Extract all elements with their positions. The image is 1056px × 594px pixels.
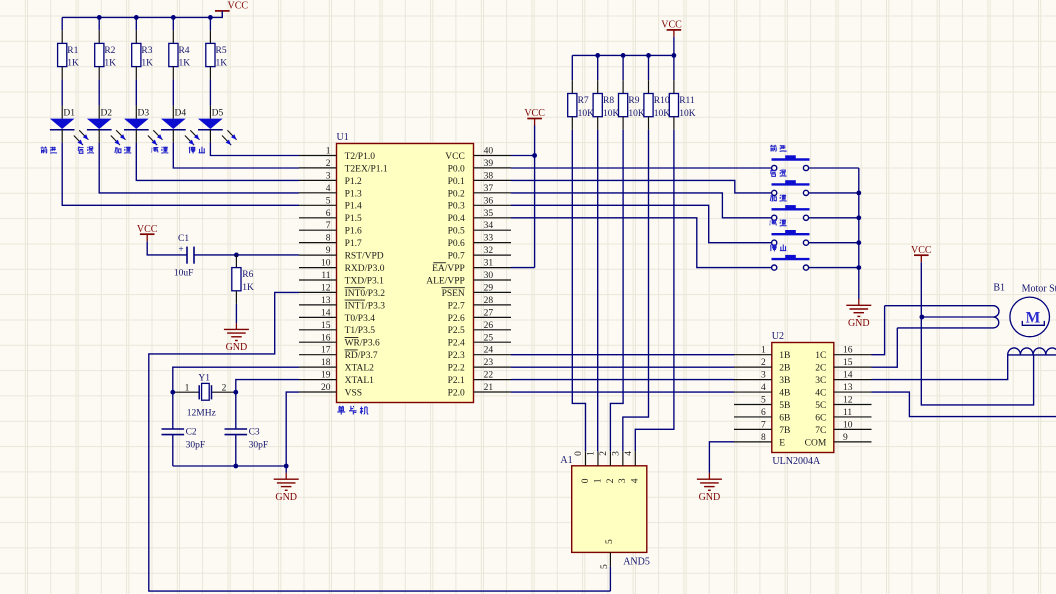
A1 pin 5 output xyxy=(609,552,611,566)
U1 pin 34 P0.5 xyxy=(474,229,512,231)
svg-text:R6: R6 xyxy=(242,270,253,280)
U1 pin 31 EA/VPP xyxy=(474,267,512,269)
svg-text:0: 0 xyxy=(574,451,584,456)
svg-text:WR/P3.6: WR/P3.6 xyxy=(345,339,380,349)
U1 pin 37 P0.2 xyxy=(474,192,512,194)
U1 pin 11 TXD/P3.1 xyxy=(299,279,337,281)
U1 pin 23 P2.2 xyxy=(474,366,512,368)
svg-text:24: 24 xyxy=(484,346,494,356)
A1 pin 4 xyxy=(634,451,636,466)
svg-text:Motor Step: Motor Step xyxy=(1022,284,1056,295)
svg-text:RXD/P3.0: RXD/P3.0 xyxy=(345,264,385,274)
wire net P0.2 xyxy=(511,193,772,218)
svg-text:ULN2004A: ULN2004A xyxy=(772,456,821,467)
LED D5 xyxy=(209,106,211,119)
U1 pin 33 P0.6 xyxy=(474,242,512,244)
LED D2 xyxy=(98,106,100,119)
wire net P2.2 to 2B xyxy=(511,366,734,368)
U1 pin 25 P2.4 xyxy=(474,341,512,343)
node VCC/P40 junction xyxy=(532,153,537,158)
svg-text:VCC: VCC xyxy=(445,152,465,162)
wire D1 to U1 xyxy=(61,130,63,143)
wire net P2.3 to 1B xyxy=(511,354,734,356)
U2 pin 13 4C xyxy=(834,391,872,393)
svg-text:P2.1: P2.1 xyxy=(448,376,465,386)
svg-text:7: 7 xyxy=(761,420,766,430)
U1 pin 18 XTAL2 xyxy=(299,366,337,368)
svg-text:3: 3 xyxy=(761,371,766,381)
motor B1 xyxy=(1010,297,1050,337)
U1 pin 39 P0.0 xyxy=(474,167,512,169)
resistor R6 1K xyxy=(235,255,237,268)
wire C1 to RST xyxy=(194,254,299,256)
U1 pin 2 T2EX/P1.1 xyxy=(299,167,337,169)
wire R5 to D5 xyxy=(209,80,211,106)
svg-text:P1.6: P1.6 xyxy=(345,227,362,237)
U2 pin 12 5C xyxy=(834,404,872,406)
svg-text:35: 35 xyxy=(484,209,494,219)
svg-text:T2EX/P1.1: T2EX/P1.1 xyxy=(345,164,388,174)
U1 pin 5 P1.4 xyxy=(299,204,337,206)
wire bus to R2 xyxy=(98,17,100,30)
U2 pin 1 1B xyxy=(734,354,772,356)
svg-text:GND: GND xyxy=(226,342,248,353)
wire bus to R1 xyxy=(61,17,63,30)
power symbol VCC (top-left rail) xyxy=(215,10,230,12)
svg-text:4: 4 xyxy=(326,184,331,194)
svg-text:3: 3 xyxy=(618,478,628,483)
wire button to GND rail xyxy=(809,167,859,169)
svg-text:10K: 10K xyxy=(654,109,671,119)
node center tap A xyxy=(920,315,925,320)
svg-text:20: 20 xyxy=(321,383,331,393)
U1 pin 35 P0.4 xyxy=(474,217,512,219)
svg-text:6B: 6B xyxy=(779,413,790,423)
svg-text:36: 36 xyxy=(484,196,494,206)
resistor R3 1K xyxy=(135,30,137,43)
label 停止 xyxy=(770,244,777,251)
svg-text:1K: 1K xyxy=(67,59,79,69)
resistor R8 10K xyxy=(597,55,599,80)
svg-text:A1: A1 xyxy=(560,455,572,466)
wire D4 to U1 xyxy=(172,130,174,143)
U1 pin 27 P2.6 xyxy=(474,316,512,318)
label 后退 xyxy=(771,170,776,177)
svg-text:2: 2 xyxy=(599,451,609,456)
wire button to GND rail xyxy=(809,217,859,219)
svg-text:D2: D2 xyxy=(100,108,112,118)
svg-text:10: 10 xyxy=(321,259,331,269)
wire R9 to AND5 input xyxy=(610,130,623,452)
U1 pin 6 P1.5 xyxy=(299,217,337,219)
svg-text:PSEN: PSEN xyxy=(442,289,465,299)
svg-text:M: M xyxy=(1026,309,1041,326)
crystal Y1 12MHz xyxy=(173,391,199,393)
svg-text:RD/P3.7: RD/P3.7 xyxy=(345,351,378,361)
svg-text:11: 11 xyxy=(843,408,852,418)
svg-text:13: 13 xyxy=(321,296,331,306)
svg-text:COM: COM xyxy=(805,438,827,448)
svg-text:R2: R2 xyxy=(104,46,115,56)
wire net P0.3 xyxy=(511,205,772,242)
svg-text:14: 14 xyxy=(843,371,853,381)
U1 pin 21 P2.0 xyxy=(474,391,512,393)
U1 pin 17 RD/P3.7 xyxy=(299,354,337,356)
svg-text:R5: R5 xyxy=(216,46,227,56)
switch S4 减速 xyxy=(772,233,810,235)
svg-text:R1: R1 xyxy=(67,46,78,56)
wire bus to R3 xyxy=(135,17,137,30)
wire D2 to U1 xyxy=(98,130,100,143)
svg-text:1B: 1B xyxy=(779,351,790,361)
svg-text:5B: 5B xyxy=(779,401,790,411)
svg-text:P2.2: P2.2 xyxy=(448,364,465,374)
label 后退 xyxy=(78,147,83,154)
svg-text:R10: R10 xyxy=(654,96,670,106)
U1 pin 29 PSEN xyxy=(474,291,512,293)
svg-text:P0.0: P0.0 xyxy=(448,164,465,174)
svg-text:VCC: VCC xyxy=(911,245,932,256)
svg-text:7B: 7B xyxy=(779,426,790,436)
wire VCC to motor center taps xyxy=(921,262,1033,405)
svg-text:P1.3: P1.3 xyxy=(345,189,362,199)
svg-text:2: 2 xyxy=(222,384,227,394)
svg-text:7: 7 xyxy=(326,221,331,231)
svg-text:EA/VPP: EA/VPP xyxy=(432,264,465,274)
svg-text:R3: R3 xyxy=(141,46,152,56)
svg-text:39: 39 xyxy=(484,159,494,169)
wire button to GND rail xyxy=(809,267,859,269)
U1 pin 20 VSS xyxy=(299,391,337,393)
U2 pin 5 5B xyxy=(734,404,772,406)
label 停止 xyxy=(189,147,196,154)
svg-text:8: 8 xyxy=(761,433,766,443)
node C1/R6 junction xyxy=(234,253,239,258)
svg-text:R8: R8 xyxy=(603,96,614,106)
svg-text:P2.7: P2.7 xyxy=(448,301,465,311)
U1 pin 24 P2.3 xyxy=(474,354,512,356)
resistor R10 10K xyxy=(648,55,650,80)
svg-text:37: 37 xyxy=(484,184,494,194)
svg-text:P2.0: P2.0 xyxy=(448,388,465,398)
svg-text:8: 8 xyxy=(326,234,331,244)
wire button GND rail xyxy=(858,168,860,299)
svg-text:5: 5 xyxy=(600,564,610,569)
svg-text:P1.5: P1.5 xyxy=(345,214,362,224)
power symbol VCC (motor) xyxy=(914,254,929,256)
svg-text:XTAL2: XTAL2 xyxy=(345,364,375,374)
gate A1 AND5 xyxy=(572,466,647,553)
LED D4 xyxy=(172,106,174,119)
wire R10 to AND5 input xyxy=(623,130,649,452)
wire bus to R5 xyxy=(209,17,211,30)
svg-text:D1: D1 xyxy=(63,108,75,118)
wire R4 to D4 xyxy=(172,80,174,106)
svg-text:P2.6: P2.6 xyxy=(448,314,465,324)
svg-text:U2: U2 xyxy=(772,331,784,342)
svg-text:30pF: 30pF xyxy=(186,441,206,451)
svg-text:9: 9 xyxy=(326,246,331,256)
svg-text:ALE/VPP: ALE/VPP xyxy=(426,276,465,286)
svg-text:4B: 4B xyxy=(779,388,790,398)
label 加速 xyxy=(770,196,776,201)
U2 pin 16 1C xyxy=(834,354,872,356)
U2 pin 4 4B xyxy=(734,391,772,393)
svg-text:15: 15 xyxy=(843,358,853,368)
wire E to GND xyxy=(709,442,734,473)
svg-text:4C: 4C xyxy=(815,388,826,398)
svg-text:Y1: Y1 xyxy=(198,374,210,384)
svg-text:6: 6 xyxy=(761,408,766,418)
wire C2/C3 ground rail xyxy=(173,465,286,467)
svg-text:C1: C1 xyxy=(178,234,189,244)
svg-text:12MHz: 12MHz xyxy=(187,408,216,418)
svg-text:10K: 10K xyxy=(603,109,620,119)
svg-text:R4: R4 xyxy=(178,46,189,56)
U1 pin 14 T0/P3.4 xyxy=(299,316,337,318)
svg-text:P2.3: P2.3 xyxy=(448,351,465,361)
label 单片机 xyxy=(337,406,345,415)
U2 pin 10 7C xyxy=(834,428,872,430)
wire 1C to coil xyxy=(872,306,885,355)
svg-text:2C: 2C xyxy=(815,364,826,374)
svg-text:+: + xyxy=(179,244,184,254)
svg-text:B1: B1 xyxy=(993,283,1005,294)
capacitor C2 30pF xyxy=(172,392,174,429)
svg-text:R7: R7 xyxy=(578,96,589,106)
svg-text:22: 22 xyxy=(484,371,494,381)
svg-text:D5: D5 xyxy=(212,108,224,118)
svg-text:13: 13 xyxy=(843,383,853,393)
svg-text:T1/P3.5: T1/P3.5 xyxy=(345,326,376,336)
U2 pin 8 E xyxy=(734,441,772,443)
svg-text:32: 32 xyxy=(484,246,494,256)
LED D1 xyxy=(61,106,63,119)
U1 pin 8 P1.7 xyxy=(299,242,337,244)
wire pull-up bus xyxy=(572,37,674,56)
svg-text:1C: 1C xyxy=(815,351,826,361)
U1 pin 13 INT1/P3.3 xyxy=(299,304,337,306)
svg-text:33: 33 xyxy=(484,234,494,244)
wire R11 to AND5 input xyxy=(635,130,674,452)
power symbol VCC (pull-ups) xyxy=(667,29,682,31)
wire VCC top bus xyxy=(62,11,222,18)
U1 pin 9 RST/VPD xyxy=(299,254,337,256)
wire R6 to GND xyxy=(235,304,237,323)
svg-text:VCC: VCC xyxy=(524,108,545,119)
svg-text:10K: 10K xyxy=(578,109,595,119)
svg-text:0: 0 xyxy=(581,478,591,483)
svg-text:3: 3 xyxy=(612,451,622,456)
svg-text:VCC: VCC xyxy=(228,1,249,12)
svg-text:1: 1 xyxy=(587,451,597,456)
svg-text:D4: D4 xyxy=(175,108,187,118)
svg-text:14: 14 xyxy=(321,308,331,318)
svg-text:GND: GND xyxy=(275,492,297,503)
svg-text:16: 16 xyxy=(843,346,853,356)
svg-text:AND5: AND5 xyxy=(623,556,650,567)
U1 pin 19 XTAL1 xyxy=(299,379,337,381)
svg-text:12: 12 xyxy=(843,396,853,406)
wire net P0.1 xyxy=(511,180,772,193)
wire R1 to D1 xyxy=(61,80,63,106)
svg-text:38: 38 xyxy=(484,171,494,181)
svg-text:TXD/P3.1: TXD/P3.1 xyxy=(345,276,385,286)
svg-text:INT0/P3.2: INT0/P3.2 xyxy=(345,289,386,299)
wire button to GND rail xyxy=(809,192,859,194)
svg-text:1: 1 xyxy=(761,346,766,356)
resistor R4 1K xyxy=(172,30,174,43)
resistor R7 10K xyxy=(571,55,573,80)
label 减速 xyxy=(770,220,777,225)
wire INT0/P3.2 to AND5 output xyxy=(149,292,611,591)
wire VSS net xyxy=(286,392,299,466)
U1 pin 1 T2/P1.0 xyxy=(299,155,337,157)
U2 pin 11 6C xyxy=(834,416,872,418)
resistor R1 1K xyxy=(61,30,63,43)
svg-text:15: 15 xyxy=(321,321,331,331)
resistor R5 1K xyxy=(209,30,211,43)
power symbol VCC (U1) xyxy=(527,118,542,120)
svg-text:9: 9 xyxy=(843,433,848,443)
label 减速 xyxy=(151,147,158,152)
svg-text:T0/P3.4: T0/P3.4 xyxy=(345,314,376,324)
ground (buttons) xyxy=(858,299,860,305)
svg-text:P2.4: P2.4 xyxy=(448,339,465,349)
svg-text:23: 23 xyxy=(484,358,494,368)
wire D5 to U1 xyxy=(209,130,211,143)
svg-text:P0.1: P0.1 xyxy=(448,177,465,187)
svg-text:1: 1 xyxy=(326,147,331,157)
svg-text:1K: 1K xyxy=(216,59,228,69)
A1 pin 0 xyxy=(585,451,587,466)
wire net P2.0 to 4B xyxy=(511,391,734,393)
svg-text:1K: 1K xyxy=(178,59,190,69)
svg-text:INT1/P3.3: INT1/P3.3 xyxy=(345,301,386,311)
U1 pin 7 P1.6 xyxy=(299,229,337,231)
svg-text:27: 27 xyxy=(484,308,494,318)
svg-text:3: 3 xyxy=(326,171,331,181)
svg-text:5: 5 xyxy=(761,396,766,406)
svg-text:P0.7: P0.7 xyxy=(448,252,465,262)
U1 pin 15 T1/P3.5 xyxy=(299,329,337,331)
motor phase winding B xyxy=(1008,348,1056,355)
ground (C2/C3/VSS) xyxy=(285,473,287,479)
svg-text:VCC: VCC xyxy=(661,20,682,31)
wire net P0.4 xyxy=(511,218,772,268)
svg-text:C2: C2 xyxy=(186,428,197,438)
op IC U1 single-chip MCU xyxy=(337,144,474,403)
svg-text:6C: 6C xyxy=(815,413,826,423)
U1 pin 16 WR/P3.6 xyxy=(299,341,337,343)
U1 pin 28 P2.7 xyxy=(474,304,512,306)
svg-text:P1.2: P1.2 xyxy=(345,177,362,187)
svg-text:R11: R11 xyxy=(679,96,695,106)
svg-text:2B: 2B xyxy=(779,364,790,374)
capacitor C1 10uF xyxy=(186,247,188,264)
svg-text:P0.3: P0.3 xyxy=(448,202,465,212)
switch S2 后退 xyxy=(772,183,810,185)
wire 2C to coil xyxy=(872,328,898,367)
svg-text:5C: 5C xyxy=(815,401,826,411)
svg-text:12: 12 xyxy=(321,283,331,293)
svg-text:VCC: VCC xyxy=(137,224,158,235)
wire R7 to AND5 input xyxy=(572,130,585,452)
U1 pin 12 INT0/P3.2 xyxy=(299,291,337,293)
A1 pin 3 xyxy=(622,451,624,466)
A1 pin 1 xyxy=(597,451,599,466)
wire R8 to AND5 input xyxy=(597,130,599,452)
svg-text:D3: D3 xyxy=(138,108,150,118)
U2 pin 3 3B xyxy=(734,379,772,381)
switch S5 停止 xyxy=(772,258,810,260)
wire net P2.1 to 3B xyxy=(511,379,734,381)
svg-text:GND: GND xyxy=(699,492,721,503)
svg-text:VSS: VSS xyxy=(345,388,362,398)
svg-text:P0.4: P0.4 xyxy=(448,214,465,224)
svg-text:1K: 1K xyxy=(141,59,153,69)
svg-text:C3: C3 xyxy=(249,428,260,438)
svg-text:1: 1 xyxy=(593,478,603,483)
resistor R11 10K xyxy=(673,55,675,80)
U2 pin 9 COM xyxy=(834,441,872,443)
svg-text:GND: GND xyxy=(848,318,870,329)
U1 pin 10 RXD/P3.0 xyxy=(299,267,337,269)
wire D3 to U1 xyxy=(135,130,137,143)
svg-text:30: 30 xyxy=(484,271,494,281)
svg-text:25: 25 xyxy=(484,333,494,343)
svg-text:4: 4 xyxy=(631,478,641,483)
junction dots on VCC bus xyxy=(97,15,102,20)
label 前进 xyxy=(770,145,776,152)
U1 pin 40 VCC xyxy=(474,155,512,157)
svg-text:XTAL1: XTAL1 xyxy=(345,376,375,386)
svg-text:4: 4 xyxy=(761,383,766,393)
node XTAL2 junction xyxy=(170,390,175,395)
U1 pin 4 P1.3 xyxy=(299,192,337,194)
svg-text:17: 17 xyxy=(321,346,331,356)
svg-text:5: 5 xyxy=(326,196,331,206)
svg-text:E: E xyxy=(779,438,785,448)
U1 pin 32 P0.7 xyxy=(474,254,512,256)
svg-text:30pF: 30pF xyxy=(249,441,269,451)
U2 pin 15 2C xyxy=(834,366,872,368)
svg-text:28: 28 xyxy=(484,296,494,306)
svg-text:10K: 10K xyxy=(628,109,645,119)
svg-text:RST/VPD: RST/VPD xyxy=(345,252,384,262)
wire button to GND rail xyxy=(809,242,859,244)
ground (U2 E) xyxy=(708,473,710,479)
IC U2 ULN2004A xyxy=(772,343,834,453)
A1 pin 2 xyxy=(609,451,611,466)
node XTAL1 junction xyxy=(233,390,238,395)
svg-text:5: 5 xyxy=(605,539,615,544)
svg-text:19: 19 xyxy=(321,371,331,381)
svg-text:R9: R9 xyxy=(628,96,639,106)
wire net P0.0 xyxy=(511,167,772,169)
U2 pin 14 3C xyxy=(834,379,872,381)
svg-text:2: 2 xyxy=(326,159,331,169)
U1 pin 30 ALE/VPP xyxy=(474,279,512,281)
svg-text:T2/P1.0: T2/P1.0 xyxy=(345,152,376,162)
svg-text:P1.4: P1.4 xyxy=(345,202,362,212)
switch S1 前进 xyxy=(772,158,810,160)
svg-text:10uF: 10uF xyxy=(174,269,194,279)
svg-text:P1.7: P1.7 xyxy=(345,239,362,249)
svg-text:11: 11 xyxy=(321,271,330,281)
U2 pin 6 6B xyxy=(734,416,772,418)
node C3 rail junction xyxy=(233,464,238,469)
